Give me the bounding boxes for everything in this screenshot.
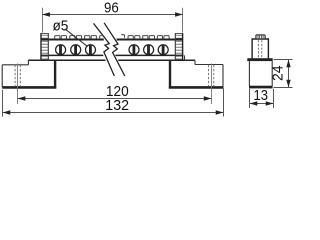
right bracket column thick edge: [169, 60, 171, 87]
side view terminal body: [252, 39, 270, 58]
left bracket column thick edge: [54, 60, 56, 87]
left bracket foot: [2, 55, 41, 87]
side view flange: [247, 58, 272, 61]
dimension 13: [250, 88, 274, 108]
dimension 132: [3, 89, 224, 117]
side view base bottom: [249, 86, 273, 89]
side view base block: [249, 61, 272, 86]
right end cap: [175, 33, 183, 61]
right bracket foot: [185, 55, 224, 87]
break line right zigzag: [104, 23, 125, 76]
screw holes with slots, right group: [129, 45, 168, 55]
front view: busbar body: [28, 40, 195, 61]
right foot bottom: [169, 86, 224, 89]
break line left zigzag: [94, 23, 115, 76]
left foot hidden hole: [15, 65, 20, 86]
svg-text:24: 24: [270, 65, 286, 81]
top terminal bumps left group: [55, 36, 102, 39]
svg-text:ø5: ø5: [52, 18, 68, 34]
dimension 24: [270, 60, 292, 88]
busbar top edge: [41, 39, 183, 41]
top terminal bumps right group: [121, 35, 169, 39]
dimension 120: [18, 64, 212, 105]
svg-text:132: 132: [105, 98, 129, 114]
screw holes with slots, left group: [56, 45, 96, 55]
dimension 96: [42, 0, 183, 32]
side view screw head: [256, 35, 265, 38]
label diameter 5: [52, 18, 87, 46]
left foot bottom: [2, 86, 56, 89]
left end cap: [41, 33, 49, 61]
svg-text:13: 13: [254, 88, 269, 104]
busbar bottom edge: [41, 54, 184, 56]
right foot hidden hole: [209, 65, 214, 86]
svg-text:96: 96: [104, 0, 119, 16]
support rail line: [28, 59, 195, 61]
